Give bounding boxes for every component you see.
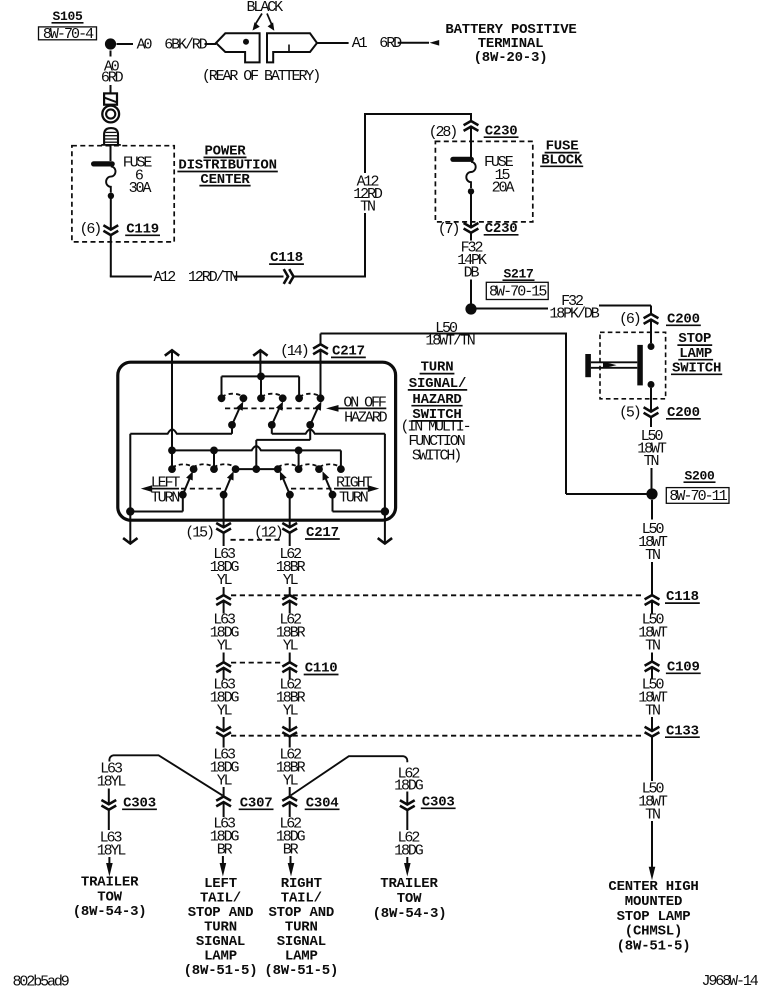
wire hazard wiper 3 to center contact: [256, 425, 310, 469]
svg-text:20A: 20A: [492, 180, 515, 197]
wire L63 18YL to left trailer tow: [97, 829, 127, 876]
label STOP LAMP SWITCH: [671, 331, 722, 376]
page id J968W-14: [702, 973, 759, 990]
stop lamp switch contacts: [585, 343, 654, 412]
hazard wiper contacts: [228, 402, 321, 429]
turn signal contact row: [168, 465, 345, 473]
svg-text:S105: S105: [52, 9, 83, 24]
wire label A0 6RD: [101, 58, 124, 93]
wire L50 18WT TN (segment 3): [638, 667, 668, 731]
wire L63 18DG YL (segment 3): [210, 668, 240, 731]
fusible link band: [104, 93, 117, 104]
node S200 splice: [646, 468, 715, 499]
wire riser A12 12RD TN: [353, 113, 472, 277]
connector C230 cavity 28: [429, 114, 519, 158]
connector C200 cavity 5: [619, 404, 701, 427]
svg-text:(CHMSL): (CHMSL): [625, 924, 682, 940]
wire L50 18WT TN to CHMSL: [638, 737, 668, 881]
svg-text:A12 12RD/TN: A12 12RD/TN: [154, 269, 238, 286]
svg-text:YL: YL: [283, 572, 299, 589]
left turn wiper contacts: [179, 471, 234, 498]
connector C307: [216, 795, 273, 817]
reference text LEFT TAIL/STOP AND TURN SIGNAL LAMP (8W-51-5): [184, 876, 258, 979]
svg-text:18YL: 18YL: [97, 773, 127, 790]
right turn wiper contacts: [280, 471, 337, 498]
connector C303 (left): [101, 795, 156, 830]
svg-text:18WT/TN: 18WT/TN: [425, 333, 474, 350]
wire A1 6RD to battery positive terminal ref: [317, 35, 439, 52]
output arrow to left front turn lamps: [165, 350, 179, 364]
svg-text:(8W-51-5): (8W-51-5): [264, 963, 338, 979]
label (REAR OF BATTERY): [202, 68, 319, 85]
svg-text:S217: S217: [503, 266, 533, 281]
battery positive terminal stud (right half): [267, 33, 317, 62]
svg-text:J968W-14: J968W-14: [702, 973, 759, 990]
svg-text:TURN: TURN: [339, 490, 368, 507]
RIGHT TURN actuator arrow: [291, 474, 379, 506]
connector C109: [645, 659, 701, 675]
svg-text:TOW: TOW: [397, 891, 422, 907]
wire L62 18BR YL (segment 3): [276, 668, 306, 731]
wire right wiper to right lamp output: [333, 495, 390, 516]
wire branch to left trailer tow: [97, 755, 223, 804]
svg-text:(8W-51-5): (8W-51-5): [617, 939, 691, 955]
svg-text:TN: TN: [645, 806, 660, 823]
connector C119 cavity 6: [80, 221, 161, 277]
stop lamp switch dashed box: [600, 332, 666, 399]
wire A12 12RD/TN to C118: [110, 269, 284, 286]
svg-text:6RD: 6RD: [101, 70, 124, 87]
svg-text:CENTER HIGH: CENTER HIGH: [608, 879, 698, 895]
svg-text:(8W-20-3): (8W-20-3): [474, 50, 548, 66]
svg-text:(8W-51-5): (8W-51-5): [184, 963, 258, 979]
reference text BATTERY POSITIVE TERMINAL (8W-20-3): [445, 22, 576, 66]
svg-text:(6): (6): [619, 311, 640, 328]
wire L62 18DG BR to right tail lamp: [276, 815, 306, 876]
svg-text:18YL: 18YL: [97, 842, 127, 859]
svg-text:BLACK: BLACK: [247, 0, 284, 16]
output arrow to right front turn lamps: [253, 350, 267, 364]
output arrow to right rear lamps: [378, 512, 392, 544]
svg-text:YL: YL: [283, 702, 299, 719]
wire F32 18PK/DB to stop lamp switch: [475, 293, 651, 322]
wire L50 18WT TN (segment 2): [638, 601, 668, 663]
fuse 6 30A element: [94, 164, 116, 229]
wire L62 18DG to right trailer tow: [394, 829, 424, 876]
svg-text:TURN: TURN: [151, 490, 180, 507]
reference text RIGHT TAIL/STOP AND TURN SIGNAL LAMP (8W-51-5): [264, 876, 338, 979]
svg-text:(28): (28): [429, 124, 457, 141]
connector C230 cavity 7: [438, 221, 519, 241]
svg-text:TN: TN: [360, 198, 375, 215]
wire hazard wiper 2 to right output: [272, 425, 385, 512]
svg-text:S200: S200: [684, 468, 715, 483]
wire branch to right trailer tow: [291, 756, 424, 804]
svg-text:18DG: 18DG: [394, 778, 424, 795]
svg-text:8W-70-15: 8W-70-15: [489, 283, 547, 300]
page id 802b5ad9: [13, 973, 69, 990]
svg-text:(6): (6): [80, 221, 101, 238]
fuse block dashed box: [435, 141, 532, 222]
connector C133 (three-way row): [216, 723, 700, 739]
svg-text:(14): (14): [280, 343, 308, 360]
hazard switch movable contacts (dashed): [222, 394, 321, 409]
wire hazard wiper 1 to left output: [130, 425, 232, 512]
label POWER DISTRIBUTION CENTER: [177, 144, 277, 188]
label BLACK with arrows: [247, 0, 284, 31]
node S217 splice: [465, 266, 534, 314]
svg-text:802b5ad9: 802b5ad9: [13, 973, 69, 990]
connector C200 cavity 6: [619, 311, 701, 343]
svg-text:TN: TN: [644, 453, 659, 470]
connector C217 cavity 15: [185, 495, 231, 542]
connector C304: [282, 795, 339, 817]
wire L50 18WT TN (segment 1): [638, 500, 668, 595]
wire L63 18DG BR to left tail lamp: [210, 815, 240, 876]
turn signal movable contacts (dashed): [172, 464, 341, 467]
reference box 8W-70-15: [486, 282, 548, 300]
crimp cap splice: [101, 128, 121, 161]
label FUSE 15 20A: [484, 154, 514, 197]
node S105 splice: [52, 9, 134, 57]
svg-text:(REAR OF BATTERY): (REAR OF BATTERY): [202, 68, 319, 85]
reference text TRAILER TOW (8W-54-3) left: [73, 874, 147, 920]
connector C217 cavity 12: [231, 495, 340, 542]
svg-text:TN: TN: [645, 547, 660, 564]
svg-text:(8W-54-3): (8W-54-3): [373, 906, 447, 922]
reference text CENTER HIGH MOUNTED STOP LAMP (CHMSL) (8W-51-5): [608, 879, 698, 955]
svg-text:TN: TN: [645, 637, 660, 654]
svg-text:30A: 30A: [129, 180, 152, 197]
turn signal feed row: [168, 446, 341, 469]
svg-text:(8W-54-3): (8W-54-3): [73, 904, 147, 920]
wire label F32 14PK DB: [457, 240, 487, 304]
reference box 8W-70-11: [666, 488, 729, 505]
wire L62 18BR YL (segment 1): [276, 533, 306, 595]
svg-text:BR: BR: [283, 841, 299, 858]
wire label A0 6BK/RD: [137, 37, 216, 54]
svg-text:(7): (7): [438, 221, 459, 238]
svg-text:TRAILER: TRAILER: [380, 876, 438, 892]
label TURN SIGNAL/HAZARD SWITCH (IN MULTI-FUNCTION SWITCH): [400, 360, 469, 465]
svg-text:YL: YL: [217, 702, 233, 719]
ring terminal (eyelet): [102, 106, 119, 123]
svg-text:(15): (15): [185, 525, 213, 542]
hazard switch contact row: [218, 394, 325, 402]
svg-text:TRAILER: TRAILER: [81, 874, 139, 890]
label FUSE BLOCK: [540, 139, 583, 169]
svg-text:YL: YL: [217, 637, 233, 654]
output arrow to left rear lamps: [123, 512, 137, 544]
reference box 8W-70-4: [39, 26, 97, 43]
battery negative terminal (left half): [216, 33, 260, 62]
wire L63 18DG YL (segment 4): [210, 737, 240, 797]
power distribution center dashed box: [72, 146, 174, 242]
hazard feed bus inside switch: [172, 362, 321, 450]
svg-text:YL: YL: [283, 772, 299, 789]
svg-text:TN: TN: [645, 702, 660, 719]
svg-text:SWITCH): SWITCH): [412, 447, 460, 464]
wire L63 18DG YL (segment 2): [210, 601, 240, 663]
svg-text:YL: YL: [217, 572, 233, 589]
svg-text:A1 6RD: A1 6RD: [352, 35, 402, 52]
wire L50 18WT/TN from turn signal switch to S200: [321, 320, 648, 494]
wire L62 18BR YL (segment 4): [276, 737, 306, 797]
svg-text:8W-70-4: 8W-70-4: [43, 26, 94, 43]
turn signal / hazard switch outline: [118, 362, 396, 520]
wire label L50 18WT TN: [637, 428, 667, 489]
hazard ON OFF actuator arrow: [326, 395, 388, 427]
svg-text:YL: YL: [217, 772, 233, 789]
wire L62 18BR YL (segment 2): [276, 601, 306, 663]
connector C110: [216, 661, 338, 677]
svg-text:A0 6BK/RD: A0 6BK/RD: [137, 37, 208, 54]
svg-text:HAZARD: HAZARD: [344, 410, 388, 427]
fuse 15 20A element: [453, 159, 476, 227]
reference text TRAILER TOW (8W-54-3) right: [373, 876, 447, 922]
wire left wiper to left lamp output: [126, 495, 183, 516]
LEFT TURN actuator arrow: [141, 474, 221, 506]
connector C118 inline: [269, 250, 366, 284]
svg-text:(5): (5): [619, 404, 640, 421]
svg-text:18PK/DB: 18PK/DB: [549, 305, 599, 322]
svg-text:DB: DB: [464, 264, 480, 281]
connector C118 (three-way row): [216, 589, 700, 605]
svg-text:18DG: 18DG: [394, 842, 424, 859]
connector C217 cavity 14: [280, 334, 366, 365]
svg-text:YL: YL: [283, 637, 299, 654]
svg-text:TOW: TOW: [97, 889, 122, 905]
connector C303 (right): [400, 794, 456, 830]
wire L63 18DG YL (segment 1): [210, 533, 240, 595]
svg-text:STOP LAMP: STOP LAMP: [617, 909, 691, 925]
label FUSE 6 30A: [123, 155, 153, 197]
svg-text:MOUNTED: MOUNTED: [625, 894, 682, 910]
svg-text:BR: BR: [217, 841, 233, 858]
svg-text:8W-70-11: 8W-70-11: [669, 488, 727, 505]
